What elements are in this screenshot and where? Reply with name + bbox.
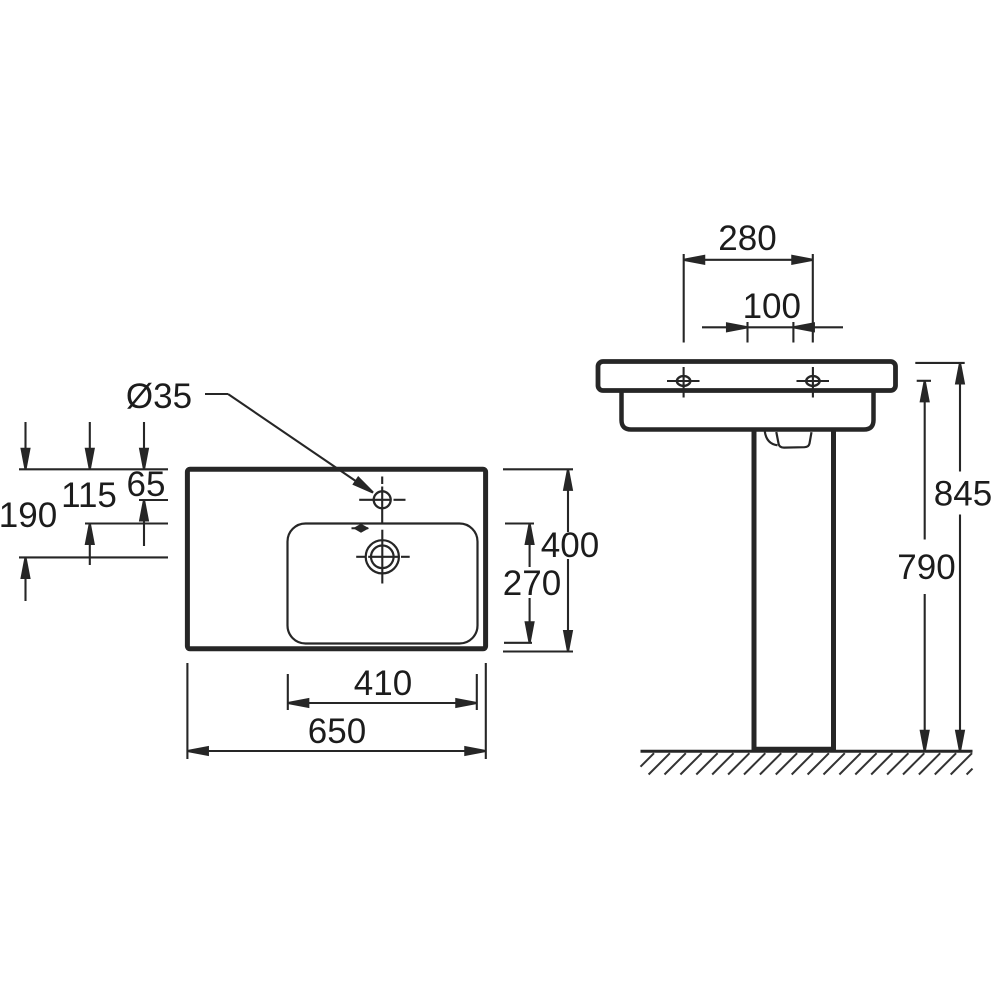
svg-text:400: 400: [541, 526, 599, 565]
svg-text:270: 270: [503, 564, 561, 603]
svg-text:280: 280: [718, 219, 776, 258]
svg-text:410: 410: [354, 664, 412, 703]
svg-text:100: 100: [743, 287, 801, 326]
svg-text:190: 190: [0, 496, 57, 535]
svg-text:Ø35: Ø35: [126, 377, 192, 416]
svg-text:115: 115: [61, 476, 117, 515]
svg-text:845: 845: [934, 475, 992, 514]
svg-text:650: 650: [308, 712, 366, 751]
svg-text:65: 65: [127, 465, 166, 504]
svg-text:790: 790: [897, 548, 955, 587]
